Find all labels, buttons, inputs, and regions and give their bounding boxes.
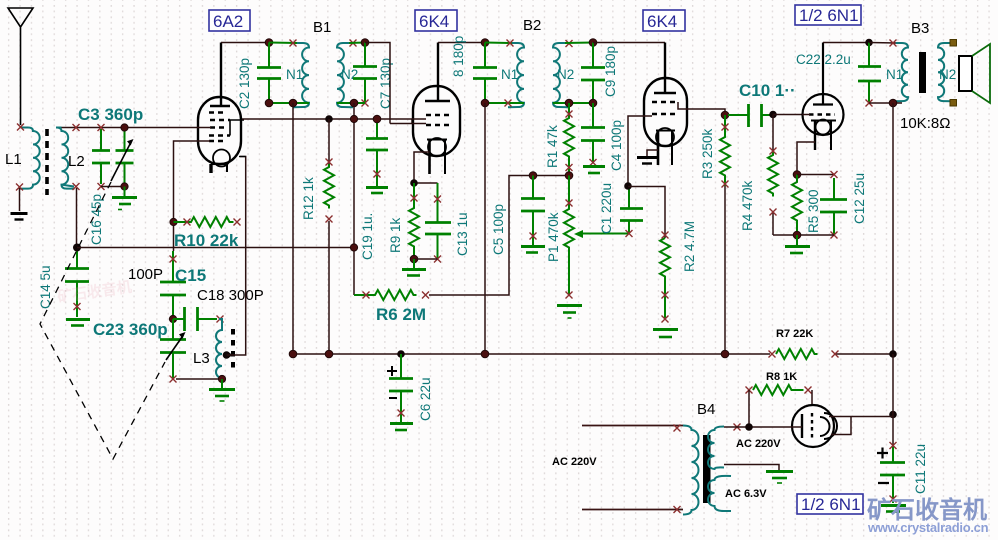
- svg-text:AC 220V: AC 220V: [552, 456, 597, 468]
- wire B2 bottom row: [485, 102, 593, 104]
- pin x R6 right: [422, 292, 429, 299]
- svg-text:B4: B4: [697, 401, 715, 418]
- junction R1 top: [565, 99, 573, 107]
- inductor L2: [56, 128, 75, 189]
- ground (C11): [881, 506, 906, 512]
- wire B1 bottom row: [269, 102, 365, 104]
- U5 cathode arcs: [820, 413, 837, 439]
- pin x C11 top: [890, 442, 897, 449]
- node AGC junction at C14: [73, 244, 81, 252]
- pin x C16 bottom: [98, 183, 105, 190]
- ground (C14): [66, 320, 90, 326]
- core B4: [703, 435, 711, 503]
- tube box 6A2: [209, 10, 250, 31]
- ground (U3 cathode): [637, 158, 657, 164]
- wire R8 left riser: [748, 390, 750, 427]
- pin x C23 bottom: [170, 376, 177, 383]
- arrow of C3: [111, 144, 130, 181]
- capacitor C7: [353, 43, 377, 103]
- pin x R4 bottom: [770, 209, 777, 216]
- winding B3-N2: [938, 43, 953, 101]
- junction rail/R3 riser: [721, 350, 729, 358]
- tube U3 6K4 envelope: [644, 78, 687, 146]
- pin x L1 bottom: [16, 184, 23, 191]
- ground (C5): [521, 247, 545, 253]
- pin x C18 right: [217, 316, 224, 323]
- junction C2 bottom: [265, 99, 273, 107]
- svg-text:R8 1K: R8 1K: [766, 371, 797, 383]
- U1 grids (dashed rows): [209, 113, 230, 142]
- capacitor C14: [65, 248, 89, 318]
- wire antenna to L1: [21, 127, 29, 129]
- ground (R9/C13): [402, 259, 426, 276]
- svg-text:6K4: 6K4: [419, 12, 449, 31]
- junction rail/B3 riser: [889, 350, 897, 358]
- wire cathode node to R2: [628, 187, 665, 239]
- svg-text:C9 180p: C9 180p: [603, 46, 618, 97]
- junction C22 top: [865, 39, 873, 47]
- pin x R8 left: [746, 387, 753, 394]
- svg-text:C19 1u.: C19 1u.: [360, 213, 375, 260]
- wire C23 to L3 bottom: [176, 378, 222, 380]
- junction C1 top node: [624, 182, 632, 190]
- junction C3 bottom: [121, 183, 128, 190]
- svg-text:C5 100p: C5 100p: [491, 204, 506, 255]
- pin x C19 bottom: [374, 171, 381, 178]
- tube U4 6N1 envelope: [803, 94, 844, 135]
- svg-text:R5 300: R5 300: [806, 189, 821, 233]
- capacitor C3 (variable): [116, 129, 134, 186]
- winding B3-N1: [893, 43, 908, 101]
- L3 tap node: [227, 352, 233, 359]
- svg-text:www.crystalradio.cn: www.crystalradio.cn: [867, 520, 989, 535]
- resistor R12: [328, 119, 330, 354]
- pin x C12 top: [831, 171, 838, 178]
- pin x R7 left: [769, 351, 776, 358]
- resistor R2: [660, 238, 670, 319]
- pin x C4 bottom: [590, 159, 597, 166]
- pin x R2 ground: [662, 316, 669, 323]
- svg-text:R4 470k: R4 470k: [740, 180, 755, 231]
- wire R4/R5/C12 bottoms: [773, 234, 834, 236]
- pin x B2 N2 top: [566, 40, 573, 47]
- junction C9/C4 bottom: [589, 99, 597, 107]
- svg-text:B2: B2: [523, 17, 541, 34]
- pin x C22 bottom: [866, 100, 873, 107]
- svg-text:L1: L1: [5, 151, 22, 168]
- pin x C14 bottom: [74, 303, 81, 310]
- arrow of C23: [166, 337, 182, 360]
- capacitor C13: [425, 183, 451, 259]
- core B3: [919, 52, 926, 93]
- tube box 1/2 6N1 bottom: [797, 494, 863, 514]
- P1 wiper: [583, 233, 628, 235]
- pin x C15 top: [170, 256, 177, 263]
- riser B3 to B+ rail: [892, 103, 894, 354]
- winding B4 secondary 220V: [708, 427, 724, 470]
- junction bus/N2 riser: [350, 115, 357, 122]
- pin x C13 bottom: [434, 256, 441, 263]
- capacitor C10: [728, 104, 773, 127]
- pin x C5 bottom: [530, 233, 537, 240]
- wire U4 anode to B3: [823, 42, 869, 44]
- junction C15 bottom: [169, 315, 176, 322]
- svg-text:8 180p: 8 180p: [451, 36, 466, 77]
- svg-text:R2 4.7M: R2 4.7M: [682, 221, 697, 272]
- U1 osc anode exit: [239, 156, 246, 158]
- pin x C7 bottom: [362, 100, 369, 107]
- U1 grid entry stubs: [197, 128, 211, 142]
- capacitor C4: [581, 103, 605, 163]
- svg-text:R1 47k: R1 47k: [545, 125, 560, 168]
- ground (L1, black): [11, 214, 28, 220]
- U3 anode: [654, 43, 676, 94]
- pin x antenna: [17, 124, 24, 131]
- winding B4 primary: [683, 426, 699, 515]
- junction C19 top: [373, 115, 381, 123]
- junction P1 top: [565, 172, 573, 180]
- pin x N2 top: [350, 40, 357, 47]
- svg-text:1/2 6N1: 1/2 6N1: [801, 495, 861, 514]
- wire R5/C12 top: [797, 174, 834, 176]
- wire B+ node down: [892, 354, 894, 446]
- pin x R3 top: [722, 124, 729, 131]
- svg-text:R10 22k: R10 22k: [174, 231, 239, 250]
- pin x L2 bottom: [73, 183, 80, 190]
- wire R8 to U5 grid: [811, 390, 813, 410]
- pin x R2 bottom: [662, 292, 669, 299]
- pin x P1 bottom: [566, 292, 573, 299]
- pin x R6 left: [363, 292, 370, 299]
- wire N2 top to C7: [349, 42, 365, 45]
- capacitor C15: [160, 251, 186, 319]
- svg-text:C22 2.2u: C22 2.2u: [796, 52, 851, 67]
- faint pink watermark ghost: [56, 278, 133, 306]
- svg-text:P1 470k: P1 470k: [546, 212, 561, 262]
- winding B2-N1: [508, 43, 524, 107]
- wire sec bottom to ground: [724, 465, 779, 471]
- wire B3 bottom left: [869, 102, 902, 104]
- pin x C1 bottom: [626, 230, 633, 237]
- winding B2-N2: [553, 43, 569, 107]
- oscillator grid riser (6A2): [174, 141, 210, 251]
- junction B3 bottom: [889, 99, 897, 107]
- svg-text:C6 22u: C6 22u: [418, 377, 433, 421]
- svg-text:6A2: 6A2: [213, 12, 243, 31]
- pin x R10 right: [234, 219, 241, 226]
- svg-text:C11 22u: C11 22u: [913, 444, 928, 494]
- wire U3 cathode to ground: [647, 150, 658, 156]
- U3 grid exit right: [678, 102, 725, 115]
- svg-text:6K4: 6K4: [647, 12, 677, 31]
- junction R9 bottom: [410, 255, 418, 263]
- wire R9/C13 bottoms: [414, 258, 438, 260]
- wire AGC horizontal: [77, 247, 354, 249]
- wire C16-C3 bottoms: [101, 186, 125, 188]
- ground (R5): [785, 235, 810, 253]
- B4 primary wires: [582, 426, 683, 510]
- wire U1 anode to B1: [221, 42, 269, 44]
- junction C5 top: [529, 172, 537, 180]
- capacitor C8: [473, 43, 497, 104]
- junction AGC/N2 riser: [350, 244, 357, 251]
- wire B1 top to N1: [269, 42, 297, 45]
- svg-text:C18 300P: C18 300P: [197, 287, 264, 304]
- pin x R1 top: [566, 111, 573, 118]
- ground (C3/C16): [112, 187, 137, 210]
- pin x R2 top: [662, 232, 669, 239]
- U2 grid entry stubs: [412, 119, 426, 124]
- junction C8 bottom: [481, 99, 489, 107]
- B+ rail: [293, 353, 893, 355]
- junction B1 secondary bottom: [350, 99, 358, 107]
- capacitor C12: [820, 178, 847, 235]
- U3 cathode: [656, 128, 675, 165]
- svg-text:C23 360p: C23 360p: [93, 320, 168, 339]
- U5 leads right: [829, 417, 893, 435]
- pin x C6 bottom: [398, 410, 405, 417]
- ground (B4 secondary): [766, 472, 793, 484]
- svg-text:N1: N1: [501, 67, 518, 82]
- pin x C13 top: [434, 196, 441, 203]
- resistor R1: [564, 103, 574, 176]
- junction rail/C6: [397, 350, 405, 358]
- wire B1 grid coupling: [365, 43, 390, 124]
- junction grid node U4 feed: [721, 111, 729, 119]
- resistor R9: [409, 183, 419, 259]
- pin x B4 primary bottom: [674, 506, 681, 513]
- resistor R10: [174, 217, 234, 227]
- wire U2 cathode to R9 node: [414, 152, 438, 183]
- core L1/L2 (dashed): [45, 129, 49, 195]
- ground (C4): [583, 167, 605, 174]
- resistor R4: [772, 115, 774, 236]
- pin x R9 top: [411, 195, 418, 202]
- U4 grid entry stub: [802, 114, 810, 116]
- U5 anode entry stub: [791, 426, 802, 428]
- resistor R5: [792, 175, 802, 236]
- svg-text:C12 25u: C12 25u: [852, 173, 867, 224]
- U4 anode: [813, 43, 833, 105]
- junction rail right node: [889, 411, 897, 419]
- ground (R2): [653, 330, 678, 338]
- svg-text:C1 220u: C1 220u: [599, 183, 614, 234]
- ground (C6): [390, 424, 413, 431]
- svg-text:B1: B1: [313, 19, 331, 36]
- inductor L3: [216, 319, 222, 379]
- port square N2 bottom: [950, 100, 957, 107]
- C6 polarity signs: [387, 366, 397, 398]
- junction cathode node U2: [410, 179, 418, 187]
- junction B1 top left: [265, 39, 273, 47]
- pin x R8 right: [805, 387, 812, 394]
- junction U4 grid node: [769, 111, 777, 119]
- U4 cathode: [811, 120, 836, 151]
- junction R10 left: [170, 218, 177, 225]
- svg-text:C10 1··: C10 1··: [739, 81, 796, 100]
- junction B2 top left: [481, 39, 489, 47]
- capacitor C2: [257, 43, 281, 104]
- capacitor C23 (variable): [160, 319, 186, 378]
- pin x B4 sec top: [734, 424, 741, 431]
- wire B2 top to N1: [485, 42, 512, 45]
- riser B1 primary to B+ rail: [292, 103, 294, 354]
- svg-text:C16 45p: C16 45p: [89, 194, 104, 245]
- inductor L1: [20, 128, 40, 189]
- tube U2 6K4 envelope: [413, 86, 460, 156]
- U1 screen tie: [228, 120, 244, 136]
- svg-text:C4 100p: C4 100p: [609, 120, 624, 171]
- resistor R7: [776, 349, 818, 359]
- riser B2 primary to B+ rail: [484, 103, 486, 354]
- pin x C12 bottom: [831, 232, 838, 239]
- capacitor C6: [389, 354, 413, 422]
- capacitor C18: [173, 307, 217, 331]
- pin x R7 right: [832, 351, 839, 358]
- U1 anode: [210, 43, 230, 107]
- speaker: [959, 44, 990, 103]
- junction rail/B2 riser: [481, 350, 489, 358]
- junction L3 bottom: [218, 375, 225, 382]
- wire B2 to U3 anode: [593, 42, 665, 44]
- U2 grids: [426, 115, 452, 125]
- resistor R6: [354, 290, 417, 300]
- pin x R10 left: [184, 219, 191, 226]
- U2 cathode: [427, 138, 447, 174]
- wire C22 to N1 (B3): [869, 42, 896, 45]
- wire grid to U4: [773, 114, 809, 116]
- pin x N1 top: [290, 40, 297, 47]
- U4 grid: [809, 113, 835, 115]
- capacitor C16: [92, 129, 110, 184]
- svg-text:1/2 6N1: 1/2 6N1: [799, 6, 859, 25]
- pin x C11 bottom: [890, 496, 897, 503]
- svg-text:AC 220V: AC 220V: [736, 438, 781, 450]
- resistor R8: [753, 385, 804, 395]
- junction rail/B1 riser: [289, 350, 297, 358]
- U1 cathode: [211, 150, 230, 174]
- U5 grid (dashed): [811, 413, 813, 440]
- pin x R12 bottom: [326, 216, 333, 223]
- resistor R3: [720, 115, 730, 186]
- svg-text:N1: N1: [286, 67, 303, 82]
- wire U2 anode to B2: [438, 42, 485, 44]
- wire R6 to P1 node: [429, 176, 569, 296]
- junction R8 riser: [745, 423, 753, 431]
- svg-text:C13 1u: C13 1u: [455, 212, 470, 256]
- pin x R4 top: [770, 148, 777, 155]
- svg-text:N2: N2: [557, 67, 574, 82]
- ground (L3): [209, 379, 235, 401]
- antenna: [8, 8, 33, 125]
- svg-text:R9 1k: R9 1k: [388, 217, 403, 253]
- junction B2 top right: [589, 39, 597, 47]
- wire L3 tap to oscillator riser: [227, 157, 246, 356]
- U2 anode: [425, 43, 450, 102]
- svg-text:C2 130p: C2 130p: [237, 58, 252, 109]
- tube box 6K4 first: [415, 10, 457, 31]
- junction rail/R12: [325, 350, 333, 358]
- pin x B3 N1 top: [890, 40, 897, 47]
- junction B1 primary bottom: [289, 99, 297, 107]
- svg-text:R6 2M: R6 2M: [376, 305, 426, 324]
- dashed gang link C3-C23: [40, 182, 165, 459]
- svg-text:100P: 100P: [128, 266, 163, 283]
- svg-text:R12 1k: R12 1k: [301, 177, 316, 220]
- pin x R3 bottom: [722, 181, 729, 188]
- pin x R12 top: [326, 159, 333, 166]
- ground (C19): [366, 188, 388, 194]
- tube U5 rectifier envelope: [792, 405, 834, 447]
- svg-text:C3 360p: C3 360p: [78, 105, 143, 124]
- C11 polarity signs: [877, 448, 889, 484]
- svg-text:C15: C15: [175, 266, 206, 285]
- U3 grid exit left: [628, 116, 652, 186]
- capacitor C9: [581, 43, 605, 104]
- svg-text:R3 250k: R3 250k: [700, 128, 715, 179]
- svg-text:L3: L3: [193, 350, 210, 367]
- wire U4 cathode down: [797, 142, 815, 174]
- capacitor C5: [521, 176, 545, 246]
- U3 grids: [652, 102, 678, 114]
- wire screen bus: [242, 119, 425, 124]
- pin x R1 bottom: [566, 164, 573, 171]
- capacitor C1: [620, 186, 643, 234]
- wire L1 to ground: [19, 188, 21, 211]
- junction U4 cathode node: [793, 171, 801, 179]
- winding B1-N2: [337, 43, 353, 107]
- pin x B2 N1 bottom: [505, 100, 512, 107]
- svg-text:10K:8Ω: 10K:8Ω: [900, 115, 950, 132]
- winding B4 secondary 6.3V: [708, 476, 731, 511]
- tube box 6K4 second: [643, 10, 685, 31]
- junction R5 bottom: [793, 231, 801, 239]
- wire sec top to U5 anode: [724, 426, 802, 428]
- svg-text:L2: L2: [68, 153, 85, 170]
- pin x B2 N1 top: [507, 40, 514, 47]
- pin x B4 primary top: [674, 425, 681, 432]
- riser R3 to B+ rail: [724, 186, 726, 354]
- svg-text:N1: N1: [886, 67, 903, 82]
- U5 plate: [801, 414, 803, 438]
- ground (P1): [557, 306, 582, 319]
- tube U1 6A2 envelope: [198, 97, 241, 164]
- pin x C16 top: [98, 124, 105, 131]
- capacitor C11: [880, 446, 905, 503]
- capacitor C22: [858, 43, 881, 104]
- port square N2 top: [950, 40, 957, 47]
- junction B1 top right: [361, 39, 369, 47]
- wire N2 top to C9: [565, 42, 593, 45]
- svg-text:R7 22K: R7 22K: [776, 328, 813, 340]
- svg-text:B3: B3: [911, 20, 929, 37]
- junction C3 top: [121, 124, 128, 131]
- riser B1 secondary to AGC: [353, 103, 355, 295]
- winding B1-N1: [293, 43, 309, 107]
- wire L2 bottom down to AGC node: [76, 188, 78, 248]
- wire L2 top to grid wire: [62, 127, 211, 129]
- core L3 (dashed): [231, 329, 235, 371]
- pin x P1 top: [566, 200, 573, 207]
- tube box 1/2 6N1 top: [795, 5, 861, 25]
- potentiometer P1: [564, 176, 574, 296]
- svg-text:AC 6.3V: AC 6.3V: [725, 488, 767, 500]
- pin x L2 top: [73, 124, 80, 131]
- junction bus/R12: [325, 115, 333, 123]
- capacitor C19: [366, 119, 388, 186]
- svg-text:N2: N2: [939, 67, 956, 82]
